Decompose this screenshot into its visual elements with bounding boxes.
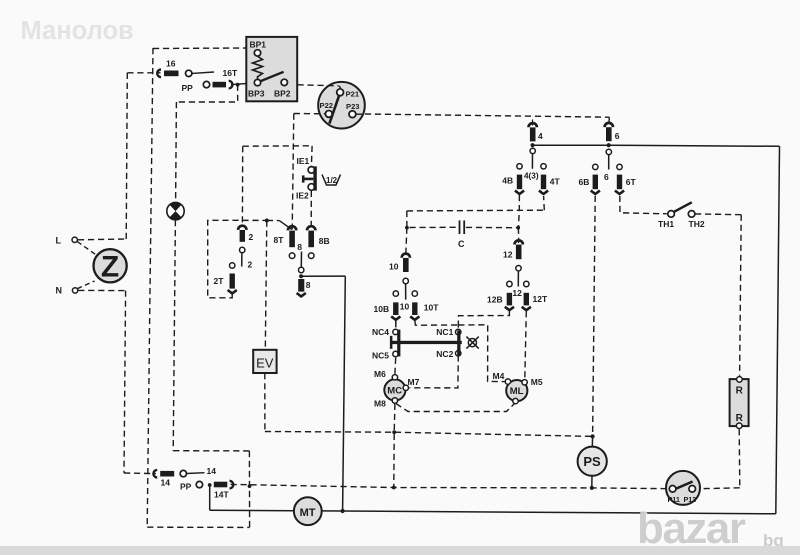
svg-text:4B: 4B <box>502 176 513 186</box>
svg-text:10B: 10B <box>374 304 390 314</box>
svg-text:10: 10 <box>389 261 399 271</box>
svg-text:M8: M8 <box>374 399 386 409</box>
svg-text:IE1: IE1 <box>297 156 310 166</box>
svg-text:MC: MC <box>387 386 402 397</box>
svg-text:BP1: BP1 <box>250 40 267 50</box>
svg-text:6T: 6T <box>626 177 637 187</box>
svg-text:4(3): 4(3) <box>524 172 539 181</box>
svg-text:12B: 12B <box>487 295 503 305</box>
svg-text:P23: P23 <box>346 102 360 111</box>
svg-text:ML: ML <box>510 386 524 397</box>
svg-text:N: N <box>56 286 63 296</box>
svg-text:16T: 16T <box>223 68 238 78</box>
svg-text:8: 8 <box>297 242 302 252</box>
svg-text:4: 4 <box>538 131 543 141</box>
svg-text:R: R <box>736 386 744 397</box>
svg-text:10T: 10T <box>424 303 439 313</box>
svg-text:L: L <box>56 236 62 246</box>
svg-text:IE2: IE2 <box>296 191 309 201</box>
svg-text:4T: 4T <box>550 177 561 187</box>
svg-text:MT: MT <box>300 507 316 519</box>
svg-text:12T: 12T <box>533 294 548 304</box>
svg-text:1/2: 1/2 <box>326 176 338 185</box>
svg-text:P11: P11 <box>668 495 680 504</box>
svg-text:2: 2 <box>249 232 254 242</box>
svg-text:bazar: bazar <box>637 504 746 553</box>
svg-text:14: 14 <box>161 478 171 488</box>
svg-text:EV: EV <box>256 356 274 371</box>
svg-text:8T: 8T <box>274 235 285 245</box>
svg-text:BP3: BP3 <box>248 89 265 99</box>
svg-text:M5: M5 <box>531 377 543 387</box>
svg-text:TH1: TH1 <box>658 219 674 229</box>
svg-text:6: 6 <box>604 172 609 182</box>
svg-text:PS: PS <box>583 454 601 469</box>
svg-text:M6: M6 <box>374 369 386 379</box>
svg-text:P13: P13 <box>684 495 697 504</box>
svg-text:R: R <box>736 413 744 424</box>
svg-text:16: 16 <box>166 58 176 68</box>
svg-text:NC5: NC5 <box>372 351 389 361</box>
svg-text:8B: 8B <box>319 236 330 246</box>
svg-text:M7: M7 <box>408 377 420 387</box>
svg-text:P21: P21 <box>346 89 360 98</box>
svg-text:M4: M4 <box>493 371 505 381</box>
svg-text:12: 12 <box>512 288 522 298</box>
svg-text:6B: 6B <box>579 177 590 187</box>
svg-text:NC1: NC1 <box>436 327 453 337</box>
svg-text:Манолов: Манолов <box>21 17 134 45</box>
svg-text:P22: P22 <box>320 101 334 110</box>
svg-text:14: 14 <box>207 466 217 476</box>
svg-text:BP2: BP2 <box>274 89 291 99</box>
svg-text:12: 12 <box>503 250 513 260</box>
svg-text:10: 10 <box>400 302 410 312</box>
svg-text:PP: PP <box>182 83 194 93</box>
svg-text:NC4: NC4 <box>372 327 389 337</box>
svg-text:8: 8 <box>306 280 311 290</box>
svg-text:14T: 14T <box>214 490 229 500</box>
svg-text:PP: PP <box>180 482 192 492</box>
svg-text:2: 2 <box>248 260 253 270</box>
svg-text:NC2: NC2 <box>436 349 453 359</box>
svg-text:Z: Z <box>101 251 119 284</box>
svg-text:6: 6 <box>615 131 620 141</box>
svg-text:2T: 2T <box>214 276 225 286</box>
svg-text:TH2: TH2 <box>689 219 705 229</box>
svg-text:C: C <box>458 239 465 249</box>
